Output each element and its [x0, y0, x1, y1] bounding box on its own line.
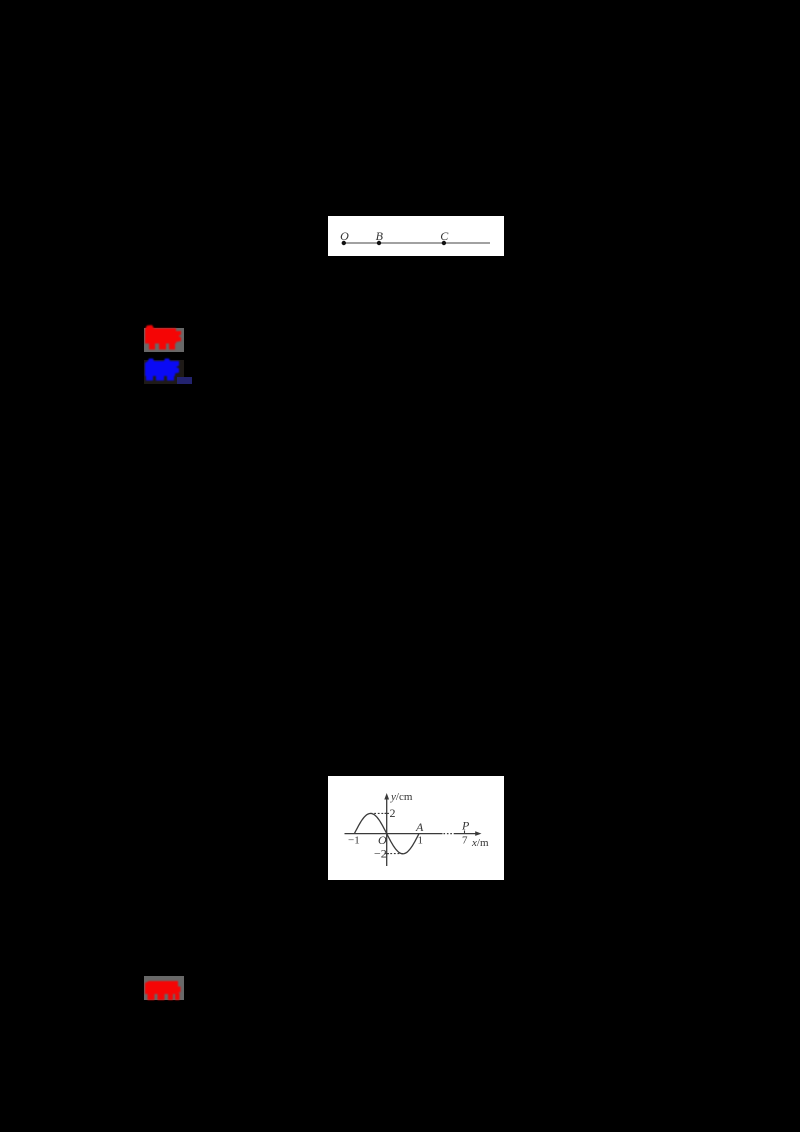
- svg-text:7: 7: [462, 835, 468, 847]
- svg-text:2: 2: [390, 806, 396, 820]
- svg-text:−1: −1: [348, 835, 360, 847]
- svg-text:x/m: x/m: [471, 837, 489, 849]
- svg-text:C: C: [440, 229, 449, 243]
- svg-text:−2: −2: [374, 847, 387, 861]
- svg-text:O: O: [378, 833, 387, 847]
- svg-text:A: A: [415, 820, 424, 834]
- svg-text:P: P: [461, 819, 470, 833]
- svg-text:O: O: [340, 229, 349, 243]
- svg-text:B: B: [376, 229, 384, 243]
- svg-text:1: 1: [418, 835, 424, 847]
- svg-text:y/cm: y/cm: [390, 791, 413, 803]
